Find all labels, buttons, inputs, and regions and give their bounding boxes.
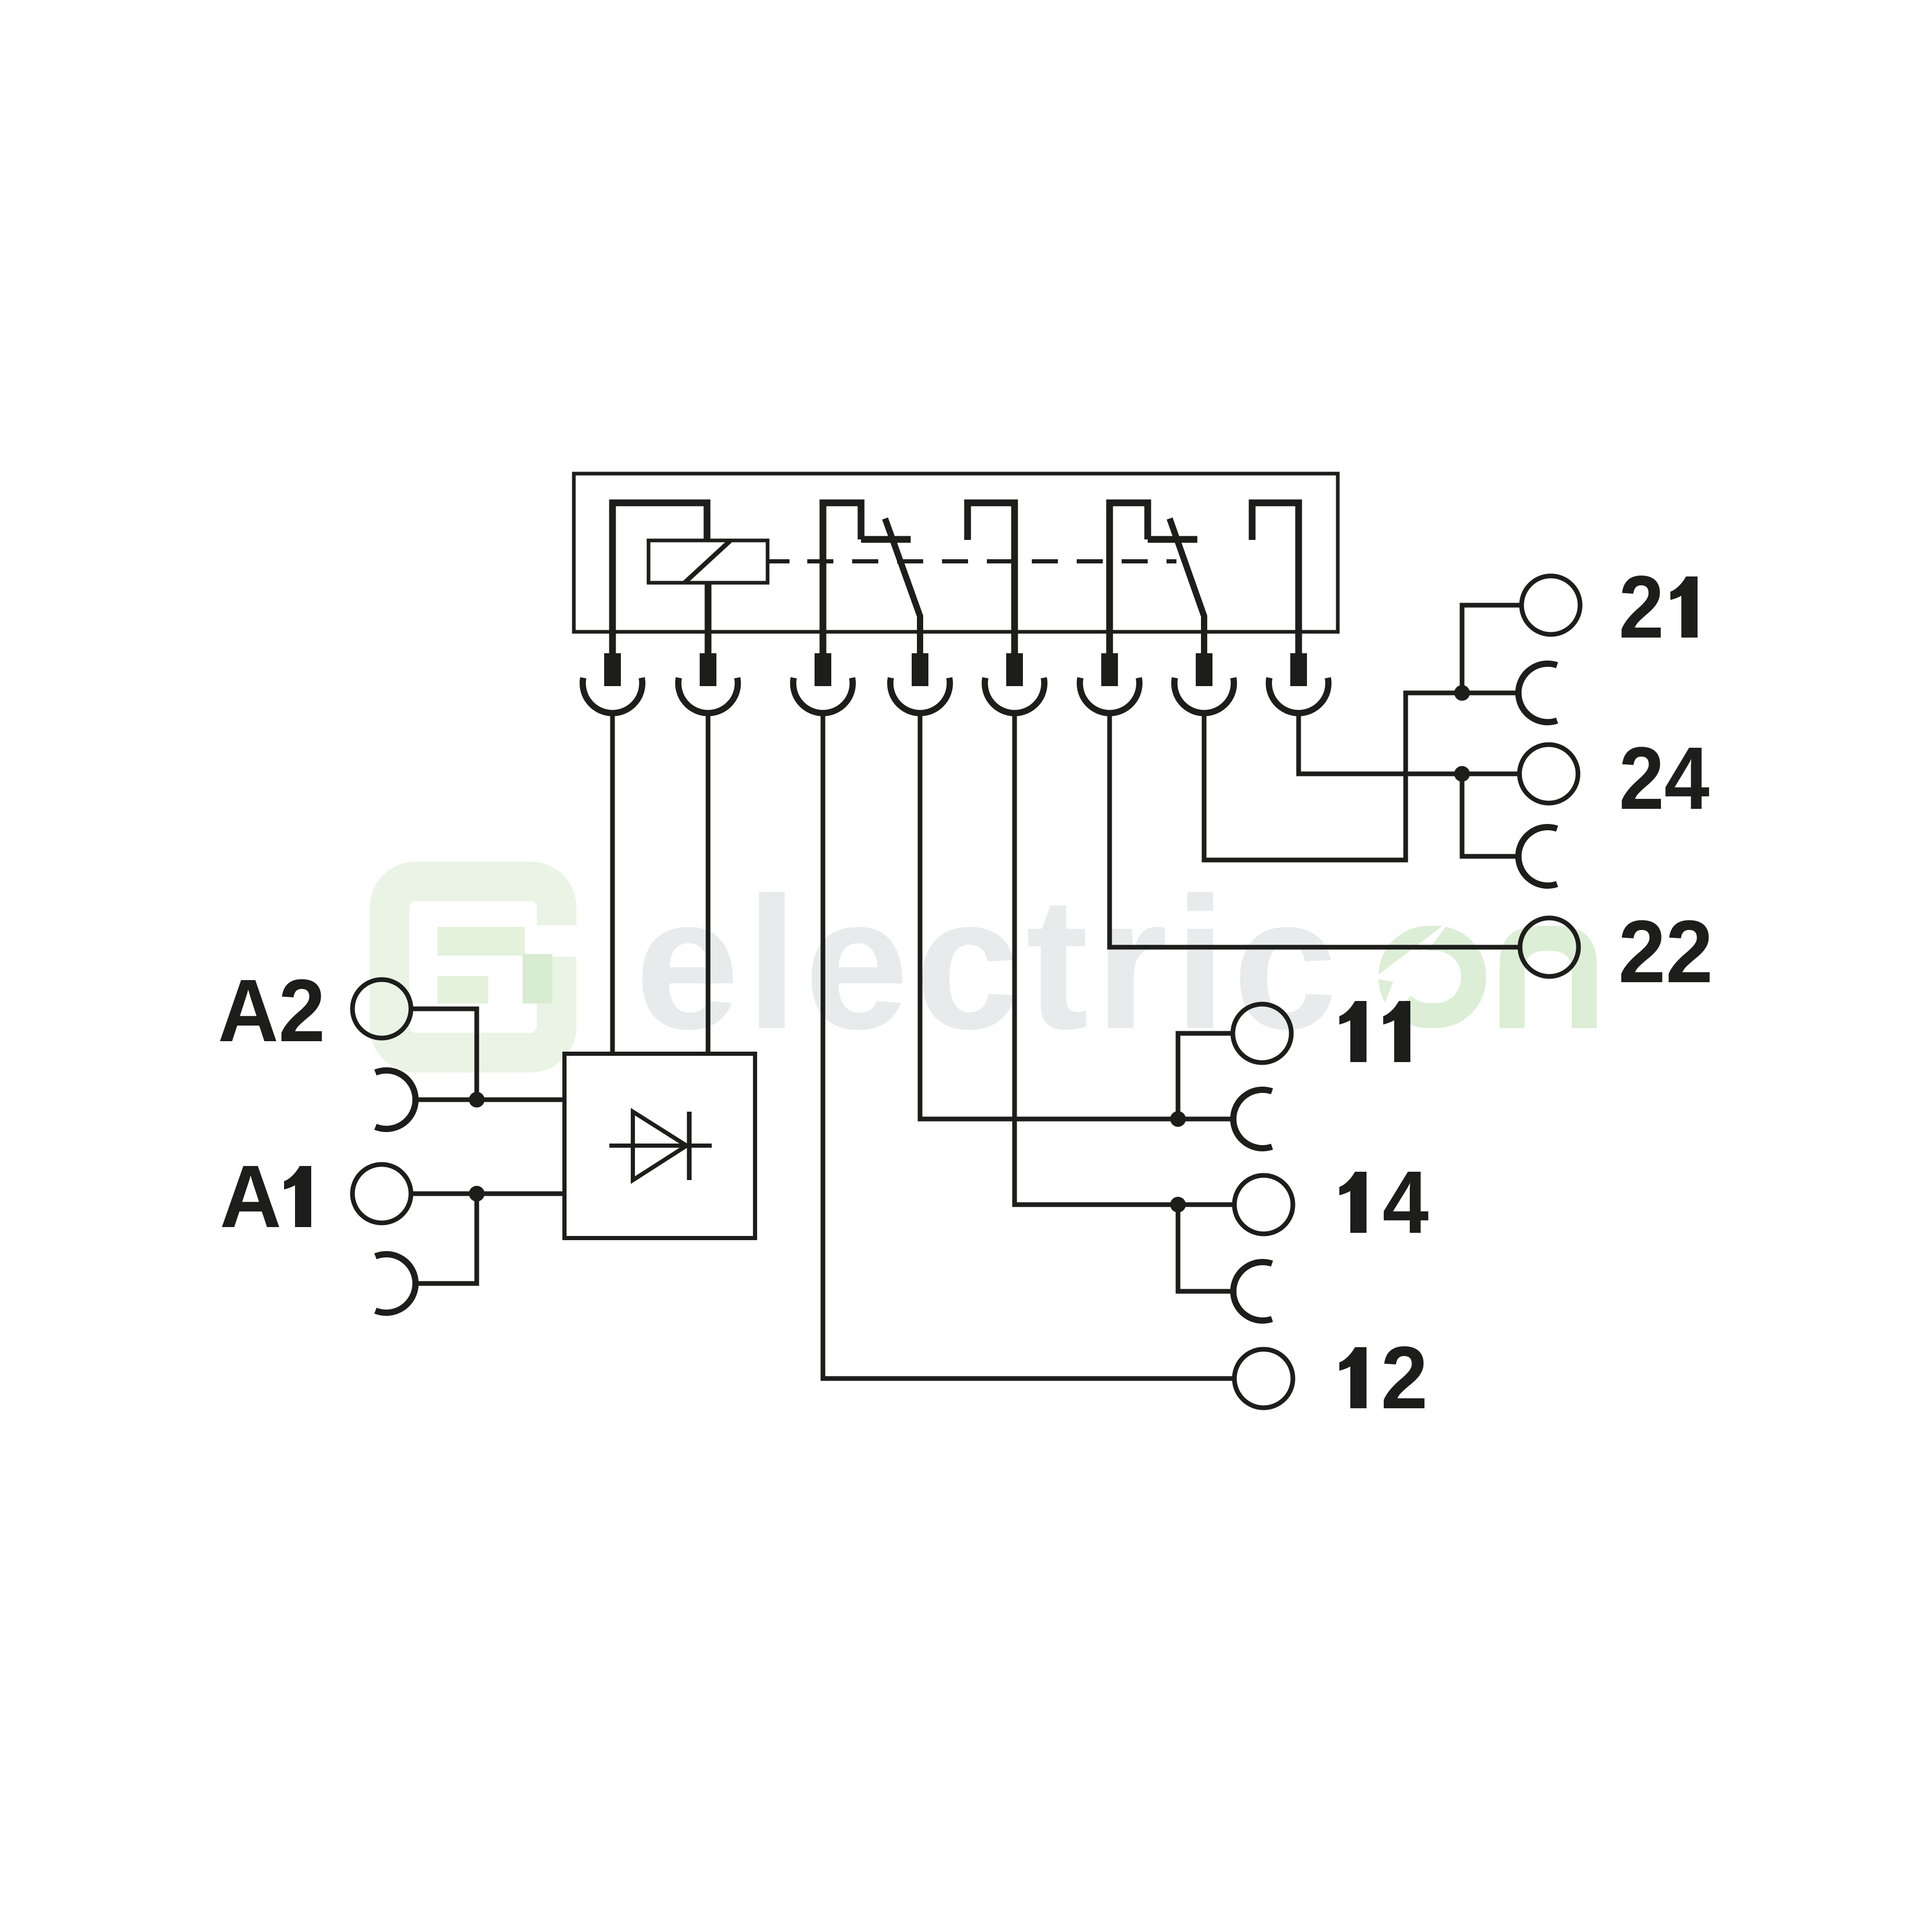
watermark text electricon (635, 858, 1597, 1068)
wire A1 to diode box (411, 1192, 564, 1196)
svg-text:2: 2 (1619, 557, 1664, 657)
wire junction 11 to socket arc (1178, 1117, 1233, 1122)
socket arc below A2 (375, 1070, 416, 1129)
terminal 24 (1519, 745, 1578, 803)
movable contact blade pole2 (pin7) (1170, 519, 1204, 653)
wire junction 24 to terminal 24 (1462, 772, 1519, 776)
socket arc below 24 (1518, 827, 1557, 886)
label A2 (218, 961, 325, 1061)
label 21 (1619, 557, 1698, 657)
wire pin8 to terminal 24 junction (1299, 714, 1462, 774)
wire junction 14 to terminal 14 (1178, 1203, 1234, 1207)
wire pin2 to diode box (706, 714, 711, 1054)
terminal 11 (1233, 1004, 1291, 1063)
plug contact pin8 (1269, 653, 1328, 713)
wire junction 21 up to terminal 21 (1462, 605, 1522, 693)
wire A2 socket to diode box (414, 1098, 564, 1102)
wire pin1 to coil top (hook) (612, 503, 707, 653)
svg-text:A2: A2 (218, 961, 325, 1061)
svg-text:22: 22 (1618, 902, 1713, 1002)
svg-text:2: 2 (1381, 1328, 1428, 1427)
label 14 (1339, 1152, 1429, 1252)
label 22 (1618, 902, 1713, 1002)
NO fixed contact pole1 (pin5 hook) (968, 503, 1015, 653)
relay coil K1 (649, 540, 768, 583)
wire junction 11 up to terminal 11 (1178, 1033, 1233, 1119)
diode D1 (609, 1112, 712, 1180)
diode module box (564, 1054, 755, 1238)
socket arc below 21 (1518, 664, 1557, 722)
label A1 (220, 1147, 311, 1246)
plug contact pin7 (1174, 653, 1234, 713)
plug contact pin5 (985, 653, 1044, 713)
junction dot 11 (1170, 1111, 1186, 1127)
junction dot 14 (1170, 1197, 1186, 1212)
movable contact blade pole1 (pin4) (885, 519, 920, 653)
wire A2 to diode box (411, 1009, 477, 1100)
terminal 22 (1520, 918, 1578, 976)
svg-text:4: 4 (1383, 1152, 1429, 1252)
mechanical link (dashed) (768, 559, 1176, 563)
wire pin4 to terminal 11 junction (920, 714, 1178, 1119)
svg-text:24: 24 (1619, 728, 1710, 828)
svg-text:A: A (220, 1147, 281, 1246)
wire junction 14 down to socket arc (1178, 1205, 1233, 1291)
terminal 21 (1522, 576, 1580, 634)
junction dot A2 (469, 1092, 485, 1108)
terminal 12 (1234, 1349, 1293, 1408)
terminal A2 (352, 980, 411, 1038)
socket arc at 11 (1233, 1090, 1272, 1148)
socket arc below A1 (375, 1254, 416, 1313)
NO fixed contact pole2 (pin8 hook) (1252, 503, 1299, 653)
junction dot 24 (1454, 766, 1470, 782)
plug contact pin6 (1080, 653, 1139, 713)
junction dot 21 (1454, 685, 1470, 701)
wire junction 24 down to socket arc (1462, 774, 1518, 856)
plug contact pin3 (793, 653, 853, 713)
NC fixed contact pole1 (pin3 hook + stub) (823, 503, 911, 653)
terminal A1 (352, 1164, 411, 1223)
plug contact pin2 (678, 653, 738, 713)
wire pin5 to terminal 14 junction (1015, 714, 1178, 1205)
label 24 (1619, 728, 1710, 828)
wire pin6 to terminal 22 (1110, 714, 1520, 947)
wire A1 junction down to socket (414, 1194, 477, 1283)
junction dot A1 (469, 1186, 485, 1201)
watermark logo (green G emblem) (390, 881, 578, 1053)
wire pin1 to diode box (610, 714, 615, 1054)
svg-text:electric: electric (635, 858, 1344, 1068)
label 11 (1339, 1001, 1410, 1062)
wire pin3 to terminal 12 (823, 714, 1234, 1379)
wire junction 21 to socket arc (1462, 691, 1518, 696)
label 12 (1339, 1328, 1428, 1427)
plug contact pin1 (583, 653, 642, 713)
socket arc at 14 (1233, 1262, 1272, 1321)
wire coil bottom to pin2 (705, 583, 712, 653)
plug contact pin4 (890, 653, 950, 713)
relay module box (574, 474, 1338, 632)
terminal 14 (1234, 1175, 1293, 1234)
wire pin7 to terminal 21 junction (1204, 693, 1462, 860)
NC fixed contact pole2 (pin6 hook + stub) (1110, 503, 1197, 653)
